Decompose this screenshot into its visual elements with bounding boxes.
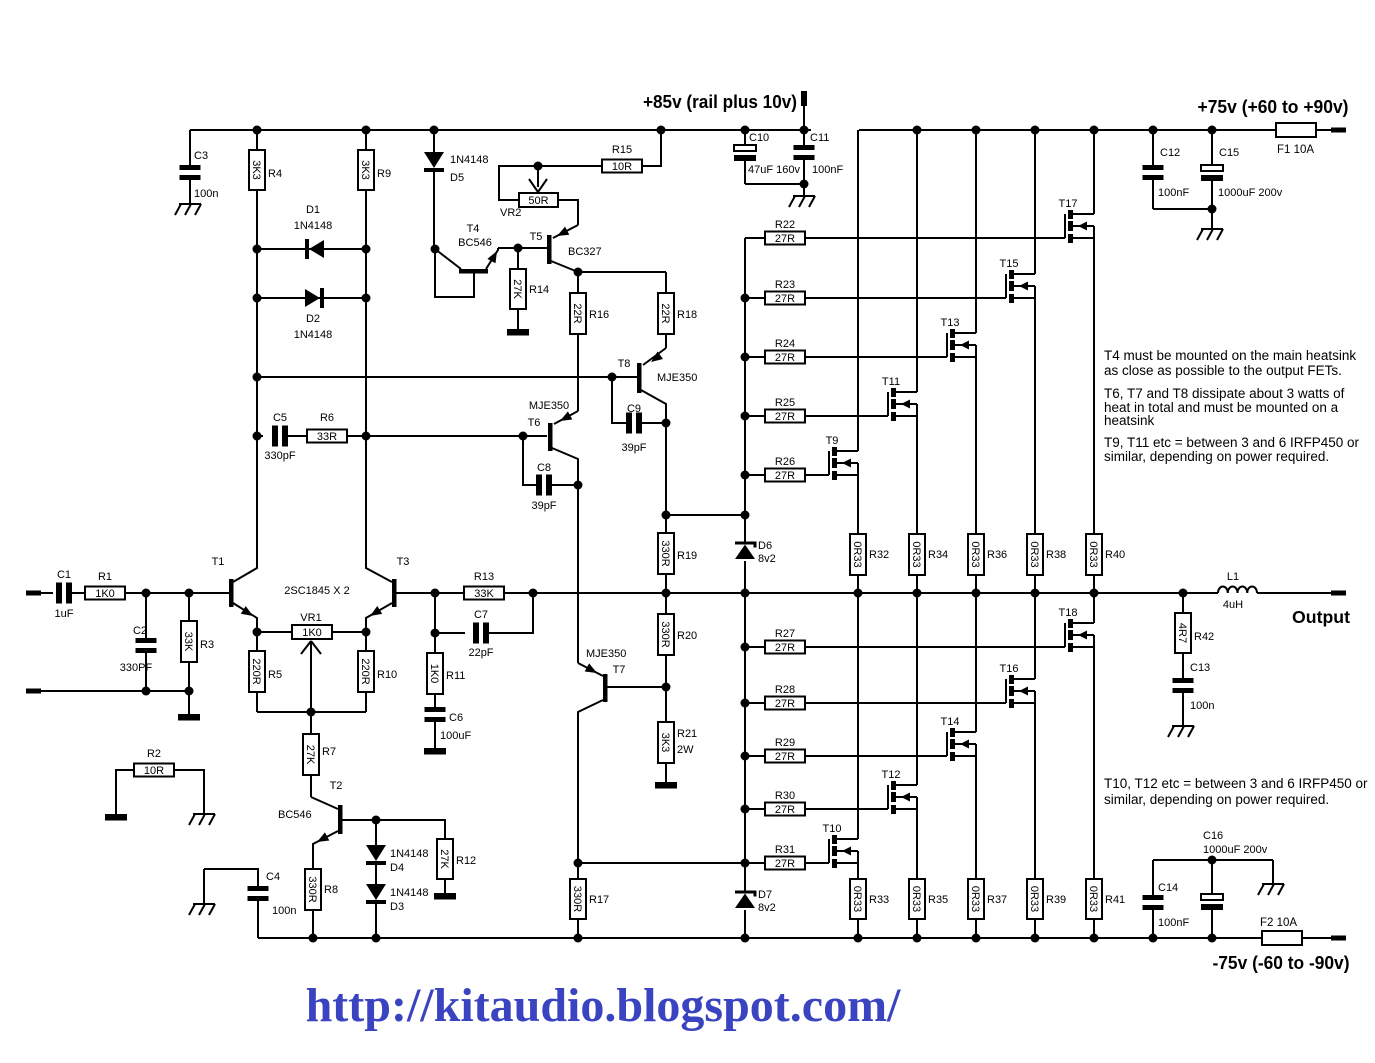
svg-text:+75v (+60 to +90v): +75v (+60 to +90v): [1198, 96, 1349, 117]
svg-text:33K: 33K: [474, 588, 494, 600]
svg-text:C2: C2: [133, 625, 147, 637]
junction C9/T8 collector: [662, 419, 671, 428]
input terminal (return): [26, 689, 189, 694]
svg-text:R9: R9: [377, 168, 391, 180]
resistor R41 (0R33): [1086, 879, 1102, 938]
label R39: [1046, 894, 1066, 906]
junction rail/R4: [253, 126, 262, 135]
svg-text:VR2: VR2: [500, 207, 521, 219]
svg-text:C15: C15: [1219, 147, 1239, 159]
svg-text:27R: 27R: [775, 233, 795, 245]
label D3: [390, 887, 429, 913]
ground (C3): [175, 204, 201, 215]
label C2: [133, 625, 147, 637]
ground (R14): [507, 329, 529, 336]
resistor R11: [427, 633, 443, 707]
svg-text:R11: R11: [446, 670, 465, 682]
label 1000uF 200v (C16): [1203, 844, 1268, 856]
svg-text:50R: 50R: [528, 195, 548, 207]
svg-text:22pF: 22pF: [468, 647, 493, 659]
resistor R12: [437, 839, 453, 893]
label BC546 (T2): [278, 809, 312, 821]
transistor T1 (2SC1845): [229, 436, 257, 632]
junction rail/R9: [362, 126, 371, 135]
label 100n (C4): [272, 905, 296, 917]
junction D2 right: [362, 294, 371, 303]
label 100nF (C12): [1158, 187, 1189, 199]
resistor R30: [745, 803, 888, 817]
svg-text:47uF 160v: 47uF 160v: [748, 164, 800, 176]
svg-text:4R7: 4R7: [1176, 623, 1188, 643]
svg-text:100n: 100n: [1190, 700, 1214, 712]
label VR2: [500, 207, 521, 219]
label R14: [529, 284, 549, 296]
svg-text:T11: T11: [882, 376, 900, 388]
fuse F1: [1276, 123, 1316, 137]
svg-text:R6: R6: [320, 412, 334, 424]
svg-text:T1: T1: [212, 556, 225, 568]
label D2: [294, 313, 333, 341]
resistor R38 (0R33): [1027, 534, 1043, 593]
resistor R37 (0R33): [968, 879, 984, 938]
label R21 2W: [677, 728, 697, 756]
junction bus/T17 source: [1090, 589, 1099, 598]
transistor T3 (2SC1845): [366, 436, 435, 632]
svg-text:27R: 27R: [775, 698, 795, 710]
transistor T2 (BC546): [311, 797, 376, 869]
label C7: [474, 609, 488, 621]
transistor T11 (IRFP450): [882, 130, 917, 534]
junction R8/-75v rail: [309, 934, 318, 943]
svg-text:F2 10A: F2 10A: [1260, 917, 1297, 929]
trimmer VR1 (1K0): [292, 625, 332, 712]
label D6: [758, 540, 776, 565]
url text: [306, 979, 901, 1032]
svg-text:R40: R40: [1105, 549, 1125, 561]
transistor T15 (IRFP450): [1000, 130, 1035, 534]
svg-text:27K: 27K: [511, 279, 523, 299]
resistor R1: [85, 587, 229, 601]
label R30: [775, 790, 795, 802]
capacitor C6: [425, 707, 446, 748]
svg-text:0R33: 0R33: [969, 886, 981, 912]
junction bias line/C9: [608, 373, 617, 382]
label -75v (-60 to -90v): [1213, 952, 1350, 973]
ground (C14/C16): [1258, 860, 1284, 895]
svg-text:R38: R38: [1046, 549, 1066, 561]
wire T5 collector to R18: [578, 271, 666, 273]
svg-text:similar, depending on power re: similar, depending on power required.: [1104, 792, 1329, 807]
svg-text:C14: C14: [1158, 882, 1178, 894]
svg-text:T9, T11 etc = between 3 and 6: T9, T11 etc = between 3 and 6 IRFP450 or: [1104, 435, 1360, 450]
label 100nF (C14): [1158, 917, 1189, 929]
junction C16 ground: [1208, 856, 1217, 865]
junction D7/-75v rail: [741, 934, 750, 943]
junction rail/T18 0R33: [1090, 934, 1099, 943]
capacitor C16 (electrolytic): [1201, 860, 1223, 938]
label C4: [266, 871, 280, 883]
junction C7/R11: [431, 629, 440, 638]
svg-text:8v2: 8v2: [758, 553, 776, 565]
transistor T12 (IRFP450): [882, 593, 917, 879]
svg-text:100nF: 100nF: [812, 164, 843, 176]
svg-text:R32: R32: [869, 549, 889, 561]
svg-text:3K3: 3K3: [250, 160, 262, 180]
node T8 collector / R19 / D6 chain: [662, 511, 671, 520]
svg-text:1N4148: 1N4148: [390, 848, 429, 860]
capacitor C8: [523, 436, 578, 496]
svg-text:R41: R41: [1105, 894, 1125, 906]
junction R6/T3 column: [362, 432, 371, 441]
svg-text:27R: 27R: [775, 293, 795, 305]
label R15: [612, 144, 632, 156]
node D5/T4: [431, 245, 440, 254]
resistor R33 (0R33): [850, 879, 866, 938]
label T8: [618, 358, 631, 370]
svg-text:R23: R23: [775, 279, 795, 291]
svg-text:BC327: BC327: [568, 246, 602, 258]
svg-text:heatsink: heatsink: [1104, 413, 1155, 428]
svg-text:C9: C9: [627, 403, 641, 415]
svg-text:330R: 330R: [306, 876, 318, 902]
svg-text:D2: D2: [306, 313, 320, 325]
svg-text:T8: T8: [618, 358, 631, 370]
svg-text:R15: R15: [612, 144, 632, 156]
label R8: [324, 884, 338, 896]
svg-text:R4: R4: [268, 168, 282, 180]
svg-text:100n: 100n: [194, 188, 218, 200]
svg-text:R26: R26: [775, 456, 795, 468]
junction D3/-75v rail: [372, 934, 381, 943]
resistor R23: [745, 292, 1006, 306]
label R27: [775, 628, 795, 640]
svg-text:R25: R25: [775, 397, 795, 409]
junction rail/T12 0R33: [913, 934, 922, 943]
svg-text:0R33: 0R33: [910, 541, 922, 567]
svg-text:R14: R14: [529, 284, 549, 296]
svg-text:C1: C1: [57, 569, 71, 581]
label C5: [273, 412, 287, 424]
node T5 collector / R16 / R18: [574, 268, 583, 277]
label C9: [627, 403, 641, 415]
label T2: [330, 780, 343, 792]
net -75v rail: [258, 937, 1331, 939]
transistor T10 (IRFP450): [823, 593, 858, 879]
label R23: [775, 279, 795, 291]
label R6: [320, 412, 334, 424]
ground (C10/C11): [789, 184, 815, 207]
ground (R2 left): [105, 814, 127, 821]
label C12: [1160, 147, 1180, 159]
svg-text:R28: R28: [775, 684, 795, 696]
label C10: [749, 132, 769, 144]
label R40: [1105, 549, 1125, 561]
junction rail/T13 drain: [972, 126, 981, 135]
ground (R2 right): [189, 814, 215, 825]
junction bus/T13 source: [972, 589, 981, 598]
label R19: [677, 550, 697, 562]
svg-text:10R: 10R: [144, 765, 164, 777]
label T3: [397, 556, 410, 568]
junction C14/-75v rail: [1149, 934, 1158, 943]
svg-text:220R: 220R: [250, 658, 262, 684]
svg-text:33R: 33R: [317, 431, 337, 443]
net upper gate chain: [744, 238, 746, 515]
junction R28/chain: [741, 699, 750, 708]
trimmer VR2 (50R): [499, 166, 558, 207]
wire C14/C16 ground link: [1153, 859, 1273, 861]
svg-text:1K0: 1K0: [428, 664, 440, 684]
label 39pF (C8): [531, 500, 556, 512]
junction rail/C11: [800, 126, 809, 135]
ground (C13): [1168, 726, 1194, 737]
svg-text:39pF: 39pF: [531, 500, 556, 512]
svg-text:T15: T15: [1000, 258, 1019, 270]
junction C2/input return: [142, 687, 151, 696]
svg-text:MJE350: MJE350: [529, 400, 569, 412]
resistor R34 (0R33): [909, 534, 925, 593]
input terminal (signal): [26, 591, 53, 596]
svg-text:D5: D5: [450, 172, 464, 184]
capacitor C15 (electrolytic): [1201, 130, 1223, 209]
resistor R5: [249, 632, 265, 712]
svg-text:T4: T4: [467, 223, 480, 235]
junction D2 left: [253, 294, 262, 303]
label 330pF (C5): [264, 450, 295, 462]
label R20: [677, 630, 697, 642]
label 47uF 160v: [748, 164, 800, 176]
label T4: [458, 223, 492, 249]
junction D6/output bus: [741, 589, 750, 598]
svg-text:D7: D7: [758, 889, 772, 901]
label C16: [1203, 830, 1223, 842]
svg-text:R20: R20: [677, 630, 697, 642]
capacitor C1: [56, 583, 85, 604]
transistor T9 (IRFP450): [826, 130, 858, 534]
svg-text:R16: R16: [589, 309, 609, 321]
svg-text:R8: R8: [324, 884, 338, 896]
junction R17/-75v rail: [574, 934, 583, 943]
wire VR2 right terminal to T5 emitter: [558, 200, 578, 225]
svg-text:330R: 330R: [659, 540, 671, 566]
svg-text:330PF: 330PF: [120, 662, 153, 674]
svg-text:27R: 27R: [775, 804, 795, 816]
label +85v (rail plus 10v): [643, 91, 797, 112]
svg-text:R30: R30: [775, 790, 795, 802]
net +75v rail (output supply): [859, 129, 1331, 131]
svg-text:as close as possible to the ou: as close as possible to the output FETs.: [1104, 363, 1342, 378]
svg-text:T12: T12: [882, 769, 901, 781]
label R7: [322, 746, 336, 758]
label T7: [613, 664, 626, 676]
label C13: [1190, 662, 1210, 674]
label R18: [677, 309, 697, 321]
svg-text:0R33: 0R33: [1087, 886, 1099, 912]
label F1 10A: [1277, 144, 1314, 156]
resistor R21 (2W): [658, 687, 674, 782]
svg-text:D1: D1: [306, 204, 320, 216]
resistor R26: [745, 469, 829, 483]
svg-text:C4: C4: [266, 871, 280, 883]
resistor R14: [510, 248, 526, 329]
label R24: [775, 338, 795, 350]
wire T7 collector node to D7: [578, 862, 745, 864]
svg-text:T17: T17: [1059, 198, 1078, 210]
resistor R18: [658, 272, 674, 348]
label R12: [456, 855, 476, 867]
label T6: [528, 417, 541, 429]
label R22: [775, 219, 795, 231]
label C11: [810, 132, 829, 144]
junction R29/chain: [741, 752, 750, 761]
svg-text:R7: R7: [322, 746, 336, 758]
svg-text:T10: T10: [823, 823, 842, 835]
junction T6 base line/C8: [519, 432, 528, 441]
label MJE350 (T7): [586, 648, 626, 660]
svg-text:R12: R12: [456, 855, 476, 867]
resistor R16: [570, 272, 586, 411]
svg-text:MJE350: MJE350: [586, 648, 626, 660]
junction T2 base/D4: [372, 816, 381, 825]
resistor R35 (0R33): [909, 879, 925, 938]
label 22pF (C7): [468, 647, 493, 659]
junction C11 ground: [800, 180, 809, 189]
-75v terminal: [1331, 936, 1346, 941]
transistor T18 (IRFP450): [1059, 593, 1094, 879]
svg-text:R31: R31: [775, 844, 795, 856]
wire bias line to T8 base: [257, 376, 637, 378]
net output bus: [504, 592, 1331, 594]
junction rail/T11 drain: [913, 126, 922, 135]
label R35: [928, 894, 948, 906]
transistor T7 (MJE350): [578, 663, 666, 863]
svg-text:http://kitaudio.blogspot.com/: http://kitaudio.blogspot.com/: [306, 979, 901, 1032]
label 39pF (C9): [621, 442, 646, 454]
svg-text:39pF: 39pF: [621, 442, 646, 454]
svg-text:R42: R42: [1194, 631, 1214, 643]
capacitor C13: [1173, 678, 1194, 726]
label MJE350 (T6): [529, 400, 569, 412]
label C15: [1219, 147, 1239, 159]
svg-text:T2: T2: [330, 780, 343, 792]
ground (C6): [424, 748, 446, 755]
transistor T4 (BC546): [435, 248, 498, 297]
svg-text:MJE350: MJE350: [657, 372, 697, 384]
resistor R10: [358, 632, 374, 712]
svg-text:T18: T18: [1059, 607, 1078, 619]
svg-text:R19: R19: [677, 550, 697, 562]
svg-text:33K: 33K: [182, 632, 194, 652]
svg-text:2SC1845 X 2: 2SC1845 X 2: [284, 585, 349, 597]
svg-text:T6: T6: [528, 417, 541, 429]
junction R19/output bus: [662, 589, 671, 598]
label R17: [589, 894, 609, 906]
svg-text:R13: R13: [474, 571, 494, 583]
svg-text:8v2: 8v2: [758, 902, 776, 914]
label R26: [775, 456, 795, 468]
svg-text:C16: C16: [1203, 830, 1223, 842]
capacitor C10 (electrolytic): [734, 130, 756, 184]
label R5: [268, 669, 282, 681]
label 100uF (C6): [440, 730, 471, 742]
transistor T14 (IRFP450): [941, 593, 976, 879]
label BC327: [568, 246, 602, 258]
label R13: [474, 571, 494, 583]
node R20 / R21 / T7 base: [662, 683, 671, 692]
svg-text:R24: R24: [775, 338, 795, 350]
svg-text:R17: R17: [589, 894, 609, 906]
junction T1 emitter/VR1: [253, 628, 262, 637]
label 1000uF 200v: [1218, 187, 1283, 199]
ground (C12/C15): [1197, 209, 1223, 240]
svg-text:R22: R22: [775, 219, 795, 231]
label R32: [869, 549, 889, 561]
svg-text:10R: 10R: [612, 161, 632, 173]
svg-text:0R33: 0R33: [969, 541, 981, 567]
junction rail/C15: [1208, 126, 1217, 135]
svg-text:T13: T13: [941, 317, 960, 329]
svg-text:3K3: 3K3: [359, 160, 371, 180]
diode D2: [257, 288, 366, 308]
label R33: [869, 894, 889, 906]
junction rail/T15 drain: [1031, 126, 1040, 135]
svg-text:27K: 27K: [304, 745, 316, 765]
wire T6 base line: [366, 435, 547, 437]
svg-text:100n: 100n: [272, 905, 296, 917]
wire T2 base to R12: [376, 820, 445, 839]
svg-text:R10: R10: [377, 669, 397, 681]
svg-text:3K3: 3K3: [659, 733, 671, 753]
svg-text:F1 10A: F1 10A: [1277, 144, 1314, 156]
svg-text:22R: 22R: [571, 303, 583, 323]
junction rail/C10: [741, 126, 750, 135]
junction bus/T15 source: [1031, 589, 1040, 598]
junction rail/T14 0R33: [972, 934, 981, 943]
label R42: [1194, 631, 1214, 643]
svg-text:0R33: 0R33: [910, 886, 922, 912]
transistor T6 (MJE350): [548, 411, 578, 485]
label C3: [194, 150, 208, 162]
junction R23/chain: [741, 294, 750, 303]
svg-text:T5: T5: [530, 231, 543, 243]
svg-text:330R: 330R: [659, 621, 671, 647]
svg-text:0R33: 0R33: [1087, 541, 1099, 567]
label D1: [294, 204, 333, 232]
svg-text:C3: C3: [194, 150, 208, 162]
svg-text:BC546: BC546: [278, 809, 312, 821]
junction R30/chain: [741, 805, 750, 814]
svg-text:R2: R2: [147, 748, 161, 760]
junction R27/chain: [741, 643, 750, 652]
wire VR1 left: [257, 631, 292, 633]
svg-text:D3: D3: [390, 901, 404, 913]
+85v supply terminal stub: [801, 91, 807, 130]
resistor R8: [305, 869, 321, 938]
svg-text:0R33: 0R33: [1028, 541, 1040, 567]
svg-text:27R: 27R: [775, 642, 795, 654]
svg-text:T9: T9: [826, 435, 839, 447]
resistor R24: [745, 351, 947, 365]
svg-text:1K0: 1K0: [95, 588, 115, 600]
resistor R25: [745, 410, 888, 424]
label +75v (+60 to +90v): [1198, 96, 1349, 117]
junction D1 right: [362, 245, 371, 254]
svg-text:C13: C13: [1190, 662, 1210, 674]
transistor T8 (MJE350): [637, 348, 666, 423]
svg-text:100nF: 100nF: [1158, 917, 1189, 929]
label L1: [1227, 571, 1239, 583]
resistor R4: [249, 130, 265, 567]
